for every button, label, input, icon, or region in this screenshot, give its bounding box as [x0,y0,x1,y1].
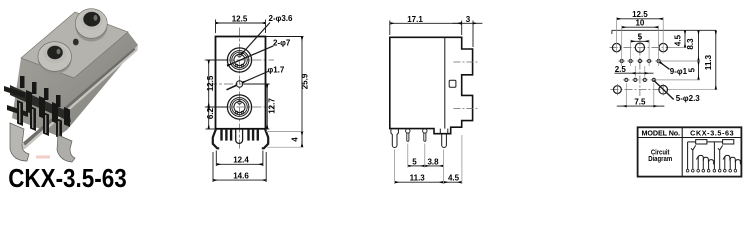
centerline lower bump [454,107,480,109]
svg-text:4.5: 4.5 [673,34,682,46]
terminal pad 1 [686,169,689,172]
svg-text:4.5: 4.5 [448,174,460,183]
dim 12.5 [617,17,664,53]
centerline top jack [205,59,275,61]
svg-text:7.5: 7.5 [634,97,646,106]
svg-text:12.5: 12.5 [206,75,215,91]
metal bracket left [10,123,29,161]
svg-text:10: 10 [635,19,644,28]
small dot on panel [73,39,79,46]
svg-text:12.7: 12.7 [267,98,276,114]
inner panel line [444,37,446,128]
dim 5 top [631,40,650,66]
svg-text:11.3: 11.3 [704,54,713,70]
svg-text:12.5: 12.5 [232,15,248,24]
small hole phi1.7 [236,81,242,87]
row2 small holes [620,59,660,62]
svg-text:2-φ3.6: 2-φ3.6 [269,14,294,23]
dim 5 / 3.8 [408,144,443,168]
dim 4.5 right [668,31,687,48]
left-pointing bent pins [4,86,25,98]
pins comb [220,129,259,141]
row4 horizontal centerline [611,89,671,91]
dim 8.3 / 5 right [657,31,701,80]
contact hook terminal 8 (right) [725,155,730,169]
dim 11.3 / 4.5 [395,135,462,184]
svg-text:CKX-3.5-63: CKX-3.5-63 [8,165,127,189]
dim far right 25.9 and 4 [266,37,304,148]
circuit diagram drawing [688,140,741,170]
svg-text:5: 5 [638,33,643,42]
svg-text:5-φ2.3: 5-φ2.3 [676,94,701,103]
bottom rail [20,45,138,149]
svg-text:2-φ7: 2-φ7 [273,39,291,48]
svg-text:Diagram: Diagram [648,154,672,163]
dim 12.5 top [216,20,266,34]
svg-text:3: 3 [466,15,471,24]
wire: bus between switch boxes [707,141,723,143]
contact hook terminal 9 (right) [730,157,735,169]
pins black comb [17,76,70,139]
svg-text:17.1: 17.1 [407,15,423,24]
dim 3 [453,21,483,48]
mounting leg right [262,129,268,148]
bushing upper-right [75,9,107,42]
pin highlights [19,103,59,136]
wire: tip bus left jack [688,141,696,143]
contact hook terminal 3 (left) [698,155,703,169]
arrow tip of right switch arm [718,145,723,150]
svg-text:3.8: 3.8 [427,157,439,166]
vertical centerline [639,34,641,97]
svg-text:6.2: 6.2 [206,107,215,119]
terminal pad 3 [697,169,700,172]
svg-text:5: 5 [412,157,417,166]
centerline bottom jack [205,106,275,108]
svg-text:25.9: 25.9 [301,73,310,89]
contact hook terminal 5 (left) [709,160,714,170]
svg-text:4: 4 [290,137,299,142]
dim 7.5 [617,83,665,108]
leader tail through small hole [227,85,237,89]
thin pin C [423,129,427,133]
small square hole [449,80,456,87]
jack opening bottom rings [227,95,251,119]
terminal pad 9 [729,169,732,172]
centerline upper bump [454,61,478,63]
dim left 12.5 / 6.2 [206,60,228,129]
svg-text:5: 5 [688,67,697,72]
svg-text:CKX-3.5-63: CKX-3.5-63 [690,128,734,137]
left thick pin [391,129,399,148]
terminal pad 8 [724,169,727,172]
row1 big holes [612,43,667,52]
svg-text:φ1.7: φ1.7 [268,65,285,74]
right end chamfer [120,32,138,54]
centerline mid hole [208,83,270,85]
jack body mass [12,12,138,136]
dim 2.5 [615,66,654,77]
center shield pin U [236,129,243,143]
dim 12.4 bottom [216,151,263,167]
switch arm terminal 2 (left) [692,150,694,169]
dim 10 [622,26,659,66]
top panel face [21,12,128,78]
dim 17.1 [390,21,462,36]
svg-text:MODEL No.: MODEL No. [642,128,681,137]
row2 tick marks [618,60,662,62]
centerline vertical [239,28,241,151]
rail shadow line [23,48,136,146]
terminal pad 5 [707,169,710,172]
bottom big holes [614,86,622,94]
pink smudge artifact [36,156,50,159]
body outline [390,37,473,133]
row1 horizontal centerline [610,47,671,49]
switch box SW2 (right jack normally-closed contact) [723,140,734,144]
contact hook terminal 10 (right) [735,160,740,170]
thin pin B [406,129,410,133]
wire: terminal 1 riser (left sleeve) [687,142,689,169]
terminal pad 7 [718,169,721,172]
switch arm terminal 7 (right) [719,150,721,169]
dim 11.3 right [669,31,718,90]
svg-text:9-φ1: 9-φ1 [670,67,688,76]
mounting leg left [213,129,219,148]
svg-text:14.6: 14.6 [233,171,249,180]
terminal pad 10 [734,169,737,172]
terminal pad 6 [713,169,716,172]
svg-text:2.5: 2.5 [615,65,627,74]
body rectangle [216,37,266,129]
row3 small holes [625,78,656,81]
pin shadow band [10,85,71,122]
table frame [638,127,742,176]
terminal pad 4 [702,169,705,172]
wire: terminal 6 riser (right sleeve) [713,142,715,169]
svg-text:11.3: 11.3 [410,174,426,183]
switch box SW1 (left jack normally-closed contact) [696,140,707,144]
svg-text:12.4: 12.4 [233,156,249,165]
contact hook terminal 4 (left) [703,157,708,169]
right thick pin [440,129,448,148]
bushing lower-left [38,42,72,74]
reference line [612,30,716,34]
jack opening top rings [227,48,251,72]
terminal pad 2 [692,169,695,172]
dim 14.6 bottom [213,152,266,182]
dim right 12.7 [244,84,270,129]
svg-text:8.3: 8.3 [686,38,695,50]
arrow tip of left switch arm [691,145,696,150]
barb on hook terminal 8 [723,156,725,159]
barb on hook terminal 3 [696,156,698,159]
metal bracket right [57,135,75,162]
